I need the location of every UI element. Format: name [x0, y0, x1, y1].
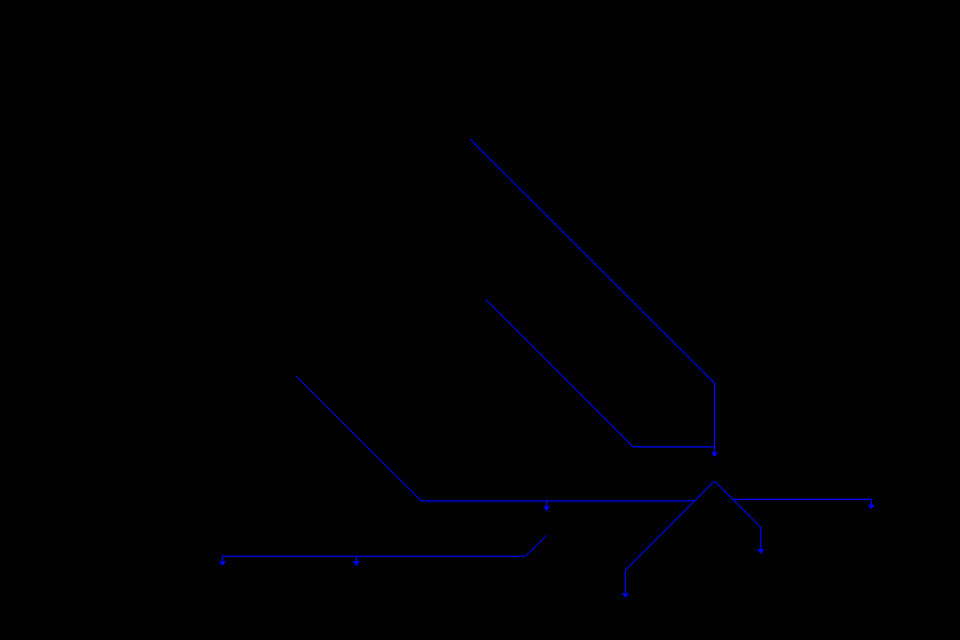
edge X to C3 : diagonal down-right — [714, 481, 760, 527]
edge P3 to node C1 : diagonal part — [296, 376, 422, 501]
edge X to C1 : arrow stub at x=546.5 — [546, 501, 548, 507]
edge P2 to node X : diagonal part — [486, 300, 633, 447]
arrowhead into node X — [711, 452, 718, 457]
edge X to C2 : vertical drop at x=625.4 — [624, 570, 626, 594]
edge C1 to G2 : arrow stub at x=356.4 — [355, 556, 357, 562]
edge P1 to node X : long diagonal — [470, 139, 714, 383]
edge X to C4 : horizontal run then arrow stub — [733, 499, 872, 505]
edge C1 to G1 : horizontal run at y=556.2 then stub — [223, 556, 526, 562]
arrowhead into node C4 — [868, 505, 875, 510]
arrowhead into node G1 — [219, 561, 226, 566]
edge X to C3 : vertical drop at x=760.7 — [760, 527, 762, 550]
arrowhead into node C1 — [543, 506, 550, 511]
arrowhead into node C3 — [757, 549, 764, 554]
edge P1 to node X : vertical drop into arrow — [713, 383, 715, 453]
arrowhead into node G2 — [353, 561, 360, 566]
edge X to C2 : diagonal down-left — [625, 481, 714, 570]
arrowhead into node C2 — [622, 593, 629, 598]
edge P3 to node C1 : horizontal run at y=501 — [421, 500, 694, 502]
edge C1 to G1 : diagonal rise part — [526, 535, 547, 556]
edge P2 to node X : horizontal run at y=447 — [633, 446, 714, 448]
